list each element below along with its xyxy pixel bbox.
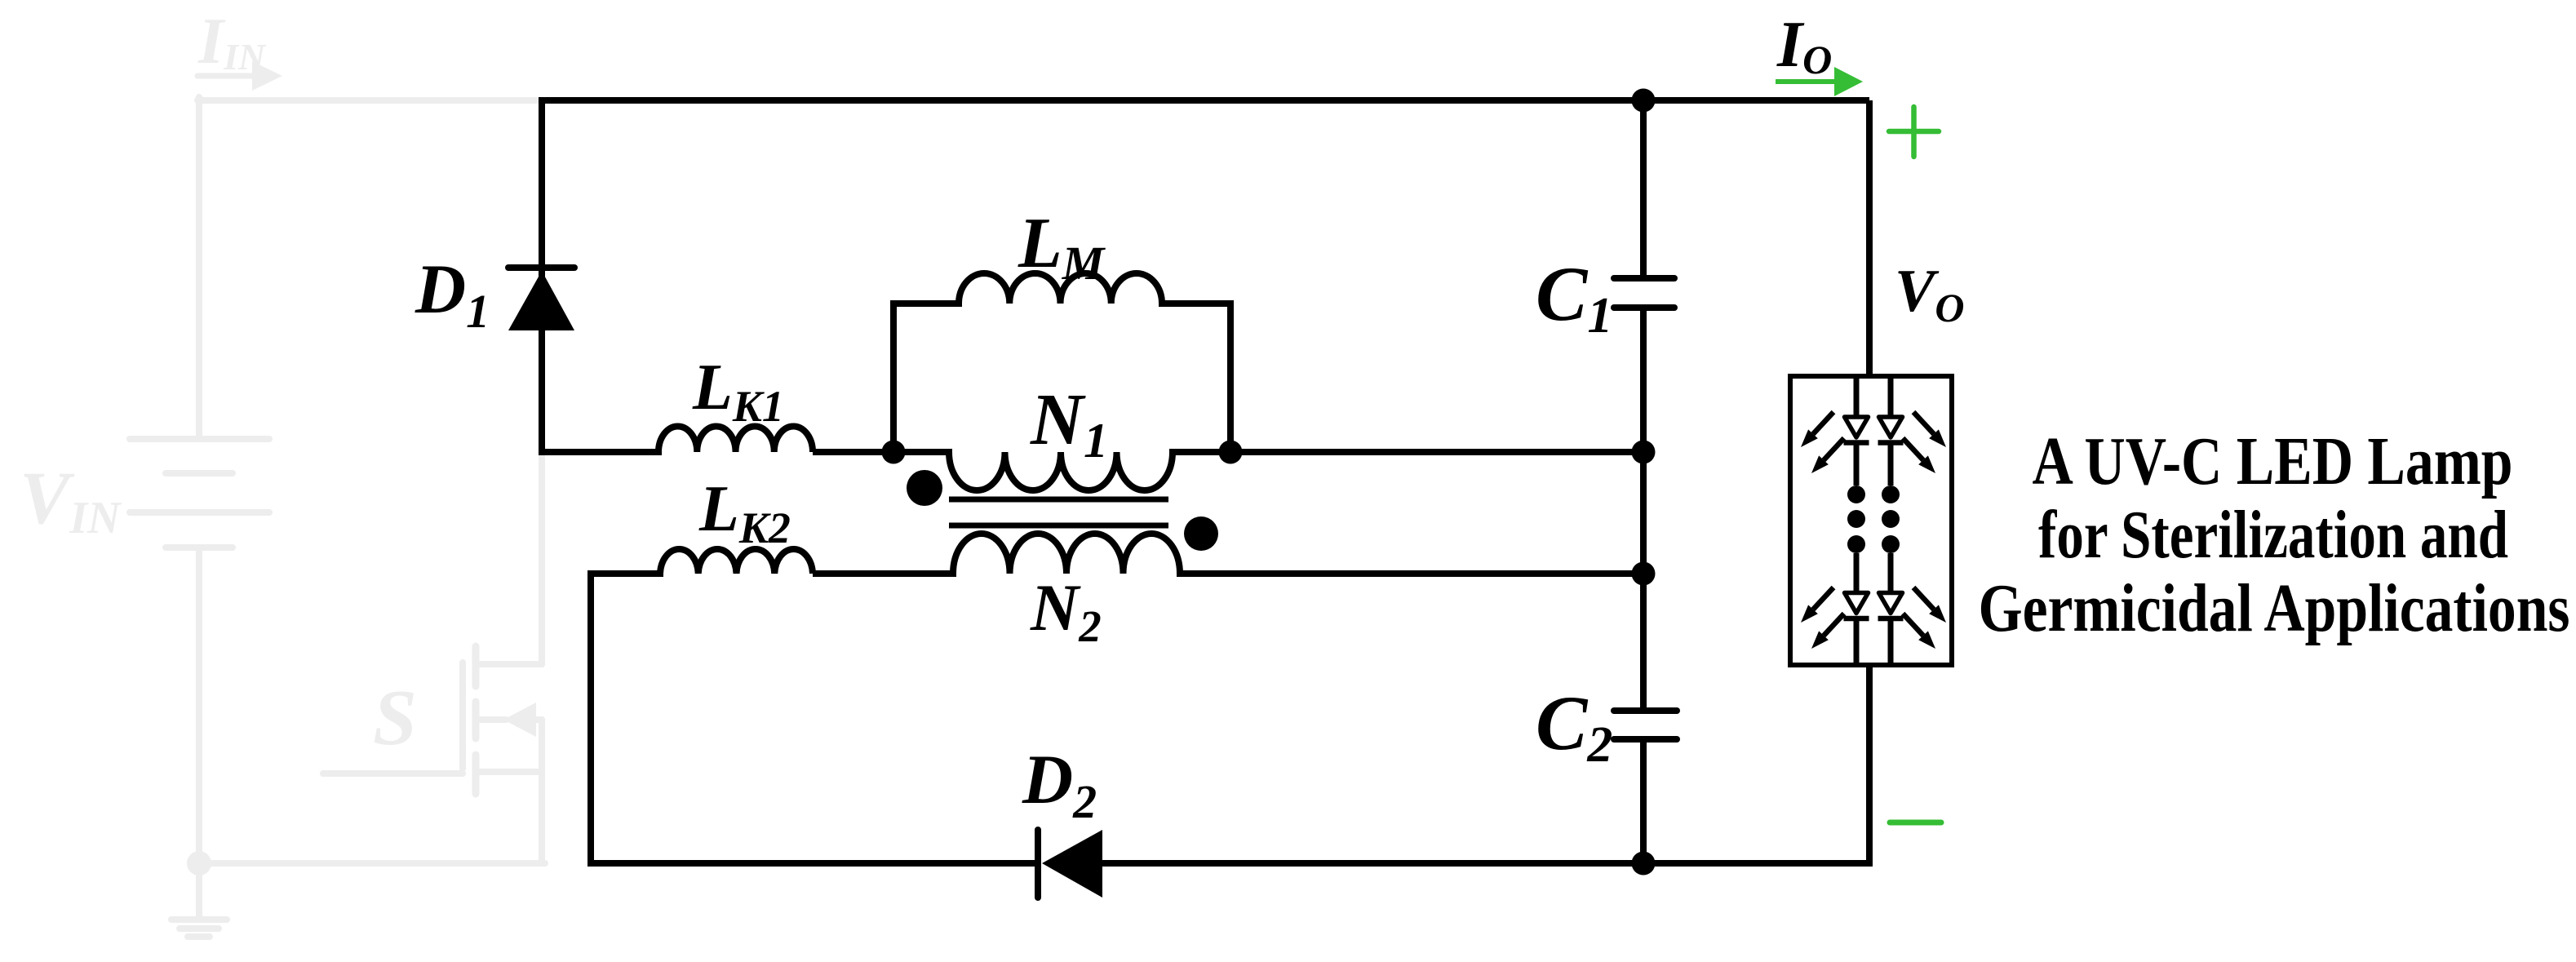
junction N1 row / C column xyxy=(1632,441,1656,464)
minus sign (green, output -) xyxy=(1890,820,1941,826)
transformer core line 2 xyxy=(949,523,1168,529)
svg-text:N1: N1 xyxy=(1030,379,1108,468)
battery V_IN plate 2 (short) xyxy=(166,470,233,477)
winding N2 (secondary, humps above) xyxy=(953,534,1180,574)
LED light arrow top-right 1 xyxy=(1913,412,1946,447)
wire L_M branch right xyxy=(1159,304,1230,452)
battery V_IN plate 4 (short) xyxy=(166,544,233,551)
wire N1 row right (junction B to C node) xyxy=(1230,449,1643,455)
phase dot N2 (right) xyxy=(1184,516,1218,551)
LED D-bot-left cathode bar xyxy=(1844,616,1869,622)
transistor S channel segment (source) xyxy=(472,755,480,794)
wire C column top (bus to C1) xyxy=(1640,97,1647,278)
LED string 2 mid lead lower xyxy=(1888,553,1894,593)
diode D2 cathode bar xyxy=(1035,830,1041,898)
transistor S body stub with arrow xyxy=(479,703,542,737)
LED D-top-right cathode bar xyxy=(1878,440,1904,446)
LED lamp box xyxy=(1790,376,1952,665)
svg-text:A UV-C LED Lamp: A UV-C LED Lamp xyxy=(2033,423,2513,499)
wire N1 row (winding to junction B) xyxy=(1169,449,1230,455)
wire N2 row right (winding to C node) xyxy=(1177,570,1643,577)
svg-text:N2: N2 xyxy=(1030,570,1102,651)
LED light arrow top-left 1 xyxy=(1801,412,1833,447)
svg-text:LM: LM xyxy=(1018,204,1106,290)
LED light arrow bot-right 2 xyxy=(1903,614,1935,649)
capacitor C2 plate top xyxy=(1614,707,1677,714)
svg-text:C1: C1 xyxy=(1536,250,1612,344)
svg-text:VO: VO xyxy=(1895,258,1964,330)
LED string 1 mid lead lower xyxy=(1854,553,1860,593)
wire D1 vertical branch xyxy=(539,97,545,455)
LED light arrow bot-left 1 xyxy=(1801,587,1833,623)
junction A (Lk1/Lm/N1 node) xyxy=(882,441,906,464)
svg-text:C2: C2 xyxy=(1536,680,1612,773)
transistor S drain stub xyxy=(479,661,542,667)
wire N1 row (junction A to winding) xyxy=(893,449,952,455)
wire C column bottom (C2 to bottom rail) xyxy=(1640,739,1647,867)
wire gray left vertical (Vin+ lead) xyxy=(196,97,202,439)
svg-text:S: S xyxy=(373,674,417,761)
svg-text:for Sterilization and: for Sterilization and xyxy=(2038,497,2508,573)
wire N1 row left (D1 to Lk1) xyxy=(542,449,662,455)
wire top bus (D1 cathode to output +) xyxy=(539,97,1869,104)
junction B (Lm/N1 right node) xyxy=(1219,441,1243,464)
junction bottom rail / C column xyxy=(1632,852,1656,876)
wire output right vertical (+ lead) xyxy=(1866,100,1873,376)
svg-text:VIN: VIN xyxy=(20,456,122,543)
inductor L_K2 winding xyxy=(660,549,813,574)
svg-text:Germicidal Applications: Germicidal Applications xyxy=(1979,570,2570,646)
LED string 1 dots (series continuation) xyxy=(1847,485,1865,553)
arrow I_IN (faded current arrow) xyxy=(197,61,282,91)
LED string 1 top lead xyxy=(1854,376,1860,418)
wire gray Vin- lead down xyxy=(196,547,202,863)
ground bar 3 xyxy=(188,933,210,940)
capacitor C1 plate top xyxy=(1614,275,1674,282)
arrow I_O (green output current arrow) xyxy=(1776,67,1863,96)
diode D1 cathode bar xyxy=(508,264,574,271)
svg-text:D2: D2 xyxy=(1022,740,1097,828)
LED string 1 mid lead upper xyxy=(1854,442,1860,485)
LED D-top-right triangle xyxy=(1879,417,1903,437)
transistor S source stub xyxy=(479,769,542,775)
svg-text:IO: IO xyxy=(1776,9,1832,82)
wire left vertical (N2 to bottom rail) xyxy=(587,570,594,867)
LED light arrow bot-left 2 xyxy=(1811,614,1844,649)
svg-text:D1: D1 xyxy=(415,250,490,338)
capacitor C1 plate bottom xyxy=(1614,304,1674,311)
diode D1 triangle (pointing up) xyxy=(508,271,574,330)
LED light arrow top-left 2 xyxy=(1811,438,1844,473)
wire gray gate lead xyxy=(323,770,463,777)
LED string 2 bottom lead xyxy=(1888,618,1894,665)
transistor S channel segment (body) xyxy=(472,702,480,738)
LED D-top-left triangle xyxy=(1845,417,1869,437)
wire N2 row left (corner to Lk2) xyxy=(591,570,663,577)
wire gray source vertical (to bottom rail) xyxy=(539,720,545,863)
transistor S channel segment (drain) xyxy=(472,646,480,686)
LED light arrow bot-right 1 xyxy=(1913,587,1946,623)
transformer core line 1 xyxy=(949,497,1168,503)
wire L_M branch xyxy=(893,304,962,452)
wire N1 row (Lk1 to junction A) xyxy=(813,449,897,455)
wire bottom rail (left segment) xyxy=(587,860,1038,867)
LED light arrow top-right 2 xyxy=(1903,438,1935,473)
battery V_IN plate 3 (long) xyxy=(130,509,269,516)
battery V_IN plate 1 (long) xyxy=(130,436,269,442)
LED D-bot-left triangle xyxy=(1845,593,1869,614)
phase dot N1 (left) xyxy=(907,470,942,506)
capacitor C2 plate bottom xyxy=(1614,736,1677,743)
wire C column middle (C1 to C2) xyxy=(1640,308,1647,711)
wire gray bottom (Vin- to MOSFET source) xyxy=(199,860,545,867)
ground bar 1 xyxy=(171,916,227,923)
junction N2 row / C column xyxy=(1632,562,1656,586)
inductor L_K1 winding xyxy=(658,426,813,452)
LED D-bot-right cathode bar xyxy=(1878,616,1904,622)
junction gray at Vin-/ground xyxy=(187,851,211,876)
LED D-bot-right triangle xyxy=(1879,593,1903,614)
LED string 2 top lead xyxy=(1888,376,1894,418)
wire N2 row (Lk2 to winding) xyxy=(813,570,956,577)
wire gray drain vertical (to D1 anode) xyxy=(539,454,545,664)
LED string 2 mid lead upper xyxy=(1888,442,1894,485)
transistor S gate bar xyxy=(459,663,466,769)
LED string 1 bottom lead xyxy=(1854,618,1860,665)
wire gray ground lead xyxy=(196,863,202,920)
ground bar 2 xyxy=(180,925,219,932)
svg-text:LK1: LK1 xyxy=(692,352,784,431)
inductor L_M winding xyxy=(959,273,1162,304)
plus sign (green, output +) xyxy=(1889,107,1939,157)
svg-text:LK2: LK2 xyxy=(698,473,791,552)
wire LED lamp output lead xyxy=(1866,665,1873,867)
LED D-top-left cathode bar xyxy=(1844,440,1869,446)
winding N1 (primary, scallops below) xyxy=(949,452,1173,490)
junction top bus / C column xyxy=(1632,89,1656,113)
wire gray top (Vin+ to D1 anode column) xyxy=(197,97,540,104)
wire bottom rail (right segment) xyxy=(1099,860,1870,867)
LED string 2 dots (series continuation) xyxy=(1882,485,1900,553)
diode D2 triangle (pointing left) xyxy=(1042,830,1102,898)
